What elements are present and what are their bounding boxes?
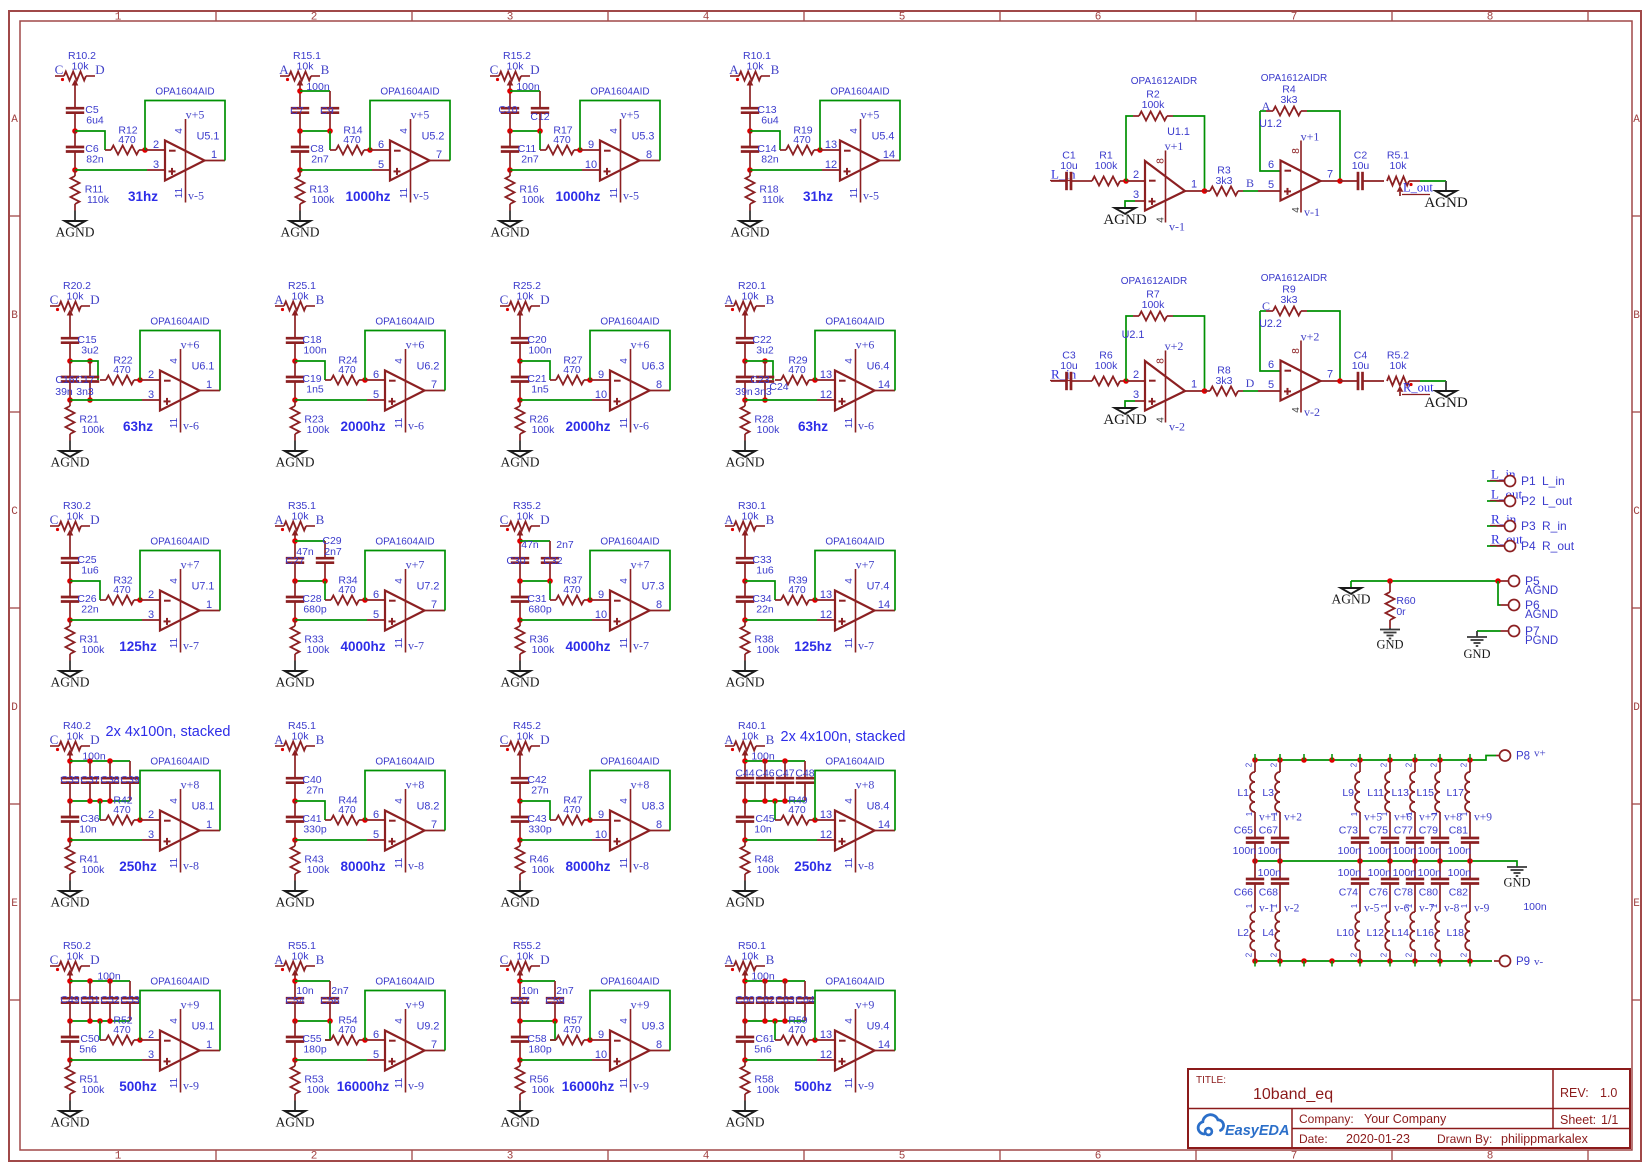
svg-text:A: A [1633,114,1640,126]
svg-text:100k: 100k [82,1084,106,1096]
svg-text:3: 3 [148,829,154,841]
frequency label 125hz [119,639,157,654]
frequency label 63hz [123,419,153,434]
svg-text:22n: 22n [756,604,774,616]
svg-text:C: C [55,62,64,77]
svg-text:v-1: v-1 [1169,220,1185,234]
svg-text:B: B [316,512,325,527]
capacitor C29 (branch) [316,558,334,563]
svg-text:v+9: v+9 [856,998,875,1012]
svg-text:L_in: L_in [1542,474,1565,488]
inductor L4 [1262,903,1280,961]
net label v-5 [1364,903,1380,915]
capacitor C61 5n6 [736,1021,775,1056]
ground AGND [1103,208,1146,228]
svg-text:9: 9 [588,139,594,151]
wire to non-inverting input [745,1059,835,1061]
net label v-7 [1419,903,1435,915]
ground AGND [276,1111,315,1130]
label [521,985,539,997]
op-amp U1.1 [1133,126,1197,234]
svg-text:10k: 10k [517,951,535,963]
junction node inverting input [137,1037,143,1043]
connector pin P8 v+ [1496,748,1546,763]
resistor R13 100k [296,170,336,206]
svg-text:U5.3: U5.3 [632,131,655,143]
svg-text:1: 1 [211,149,217,161]
svg-text:v+5: v+5 [621,108,640,122]
wire to ground [299,204,301,221]
svg-text:8: 8 [656,1039,662,1051]
svg-text:R_out: R_out [1403,381,1434,395]
wire node to R [295,361,325,380]
net label R_out [1487,532,1523,547]
svg-text:100k: 100k [307,864,331,876]
svg-text:2: 2 [1405,952,1414,957]
svg-text:v+8: v+8 [856,778,875,792]
potentiometer R25.1 10k [274,280,324,316]
wire to inverting input [140,379,160,381]
svg-text:v-8: v-8 [858,859,874,873]
svg-text:1000hz: 1000hz [345,189,390,204]
svg-text:OPA1604AID: OPA1604AID [825,537,884,548]
wire to ground [509,204,511,221]
frequency label 250hz [119,859,157,874]
svg-text:v+5: v+5 [861,108,880,122]
svg-text:C78: C78 [1394,887,1413,899]
wire output [875,830,896,832]
svg-text:C23: C23 [750,374,769,386]
junction node inverting input [137,817,143,823]
svg-text:AGND: AGND [51,1115,90,1130]
ground AGND [281,221,320,240]
wire to non-inverting input [1125,401,1145,408]
wire junction node [292,978,298,984]
capacitor C60 100n [735,994,754,1006]
svg-text:OPA1604AID: OPA1604AID [155,87,214,98]
resistor R38 100k [741,620,781,656]
svg-text:4: 4 [619,798,630,804]
wire v- rail [1252,958,1492,966]
resistor R27 470 [550,355,590,385]
svg-text:5: 5 [1268,379,1274,391]
svg-text:C48: C48 [795,768,814,780]
wire to ground [749,204,751,221]
capacitor C1 10u [1060,150,1078,191]
capacitor C50 5n6 [61,1021,100,1056]
svg-text:U6.1: U6.1 [192,361,215,373]
wire to non-inverting input [520,839,610,841]
wire feedback [140,771,220,831]
svg-text:3u2: 3u2 [81,345,99,357]
svg-text:2: 2 [1460,952,1469,957]
svg-text:v-9: v-9 [858,1079,874,1093]
wire [517,1003,558,1024]
svg-text:GND: GND [1503,876,1530,890]
wire cap stubs [90,981,130,998]
svg-text:680p: 680p [303,604,327,616]
svg-text:10k: 10k [517,731,535,743]
wire pot wiper [69,314,71,338]
potentiometer R55.2 10k [500,940,550,976]
svg-text:250hz: 250hz [794,859,832,874]
svg-text:250hz: 250hz [119,859,157,874]
capacitor C64 100n [795,994,814,1006]
wire feedback [815,771,895,831]
svg-text:1: 1 [1350,903,1359,908]
wire to inverting input [590,1039,610,1041]
capacitor C17 (parallel) [81,361,99,403]
wire to non-inverting input [75,169,165,171]
svg-text:5: 5 [1268,179,1274,191]
wire to branch cap [300,91,330,108]
svg-text:11: 11 [399,187,410,198]
svg-text:100k: 100k [532,644,556,656]
potentiometer R25.2 10k [500,280,550,316]
svg-text:10k: 10k [297,61,315,73]
wire pot wiper [519,314,521,338]
svg-text:9: 9 [598,369,604,381]
wire pot wiper [519,754,521,778]
op-amp U9.1 OPA1604AID [148,977,214,1093]
svg-text:100n: 100n [303,345,327,357]
svg-text:v+7: v+7 [631,558,650,572]
svg-text:v+7: v+7 [181,558,200,572]
svg-text:7: 7 [431,1039,437,1051]
wire tap to R [99,1021,101,1040]
capacitor C34 22n [736,581,774,616]
svg-text:v-9: v-9 [633,1079,649,1093]
chip label OPA1612AIDR [1131,76,1198,87]
resistor R24 470 [325,355,365,385]
resistor R48 100k [741,840,781,876]
svg-text:A: A [729,62,739,77]
wire to ground [69,434,71,451]
wire to branch cap [295,981,330,998]
junction node inverting input [812,1037,818,1043]
svg-text:GND: GND [1463,647,1490,661]
svg-text:6: 6 [1268,359,1274,371]
wire node to R [295,801,325,820]
svg-text:OPA1612AIDR: OPA1612AIDR [1131,76,1198,87]
svg-text:2n7: 2n7 [556,539,574,551]
svg-text:14: 14 [878,379,890,391]
svg-text:11: 11 [174,187,185,198]
op-amp U5.4 OPA1604AID [825,87,895,203]
svg-text:P1: P1 [1521,474,1536,488]
label 100n [97,971,121,983]
svg-text:100k: 100k [532,864,556,876]
svg-text:9: 9 [598,589,604,601]
wire output [650,610,671,612]
svg-text:D: D [95,62,104,77]
label [320,995,339,1007]
capacitor C9 (branch) [321,108,339,113]
svg-text:2n7: 2n7 [521,154,539,166]
svg-text:100n: 100n [528,345,552,357]
svg-text:6: 6 [373,369,379,381]
capacitor C37 100n [80,774,99,786]
svg-text:10u: 10u [1352,360,1370,372]
capacitor C15 3u2 [61,334,99,357]
capacitor C65 100n [1233,825,1265,862]
label [510,995,529,1007]
svg-text:100k: 100k [532,424,556,436]
label [530,111,549,123]
wire [517,343,523,364]
op-amp U7.3 OPA1604AID [595,537,665,653]
junction node inverting input [587,1037,593,1043]
wire tap to R [99,801,101,820]
svg-text:125hz: 125hz [119,639,157,654]
svg-text:B: B [321,62,330,77]
wire to non-inverting input [70,1059,160,1061]
svg-text:AGND: AGND [51,675,90,690]
svg-text:470: 470 [113,364,131,376]
capacitor C63 100n [775,994,794,1006]
capacitor C56 (branch) [321,998,339,1003]
svg-text:v-9: v-9 [1474,903,1490,915]
svg-text:470: 470 [788,584,806,596]
title text [1196,1075,1618,1146]
svg-text:6: 6 [1268,159,1274,171]
svg-text:OPA1604AID: OPA1604AID [150,977,209,988]
svg-text:100k: 100k [757,424,781,436]
svg-text:v-8: v-8 [408,859,424,873]
svg-text:OPA1604AID: OPA1604AID [150,317,209,328]
potentiometer R50.1 10k [724,940,774,976]
svg-text:100k: 100k [82,424,106,436]
svg-text:OPA1604AID: OPA1604AID [600,537,659,548]
svg-text:AGND: AGND [51,895,90,910]
svg-text:13: 13 [820,369,832,381]
capacitor C77 100n [1393,825,1425,862]
svg-text:v+1: v+1 [1165,139,1184,153]
svg-text:D: D [11,702,18,714]
wire to inverting input [140,1039,160,1041]
svg-text:B: B [11,310,18,322]
capacitor C81 100n [1448,825,1480,862]
svg-text:14: 14 [883,149,895,161]
ground AGND [491,221,530,240]
wire cap stubs [765,981,805,998]
svg-text:3: 3 [507,1151,514,1163]
chip label OPA1612AIDR [1121,276,1188,287]
chip label OPA1612AIDR [1261,273,1328,284]
wire [67,602,73,623]
svg-text:10k: 10k [67,731,85,743]
wire to non-inverting input [70,619,160,621]
svg-text:500hz: 500hz [119,1079,157,1094]
svg-text:11: 11 [619,417,630,428]
svg-text:v-9: v-9 [183,1079,199,1093]
ground AGND [51,451,90,470]
svg-text:11: 11 [844,1077,855,1088]
svg-text:C: C [1633,506,1640,518]
svg-text:L9: L9 [1342,787,1354,799]
wire to non-inverting input [295,619,385,621]
wire output 2 [1321,178,1359,184]
svg-text:5: 5 [373,609,379,621]
wire pot wiper [74,84,76,108]
svg-text:10n: 10n [754,824,772,836]
potentiometer R55.1 10k [274,940,324,976]
capacitor C35 100n [60,774,79,786]
capacitor C8 2n7 [291,131,329,166]
op-amp U6.3 OPA1604AID [595,317,665,433]
svg-text:v-5: v-5 [188,189,204,203]
svg-text:13: 13 [825,139,837,151]
resistor R41 100k [66,840,106,876]
svg-text:11: 11 [394,417,405,428]
ground AGND [501,671,540,690]
svg-text:1: 1 [115,1151,122,1163]
wire to branch cap [520,541,550,558]
capacitor C7 (main) [291,108,309,113]
svg-text:22n: 22n [81,604,99,616]
svg-text:2n7: 2n7 [311,154,329,166]
wire [517,602,523,623]
svg-text:C: C [500,512,509,527]
wire branch to R [325,1021,330,1040]
wire to ground [519,1094,521,1111]
svg-text:v-6: v-6 [183,419,199,433]
svg-text:12: 12 [820,609,832,621]
resistor R26 100k [516,400,556,436]
wire to ground [744,874,746,891]
ground AGND [51,891,90,910]
svg-text:11: 11 [394,857,405,868]
label [516,81,540,93]
capacitor C44 100n [735,768,754,783]
resistor R29 470 [775,355,815,385]
op-amp U9.4 OPA1604AID [820,977,890,1093]
resistor R46 100k [516,840,556,876]
svg-text:v+5: v+5 [186,108,205,122]
wire to ground [294,434,296,451]
wire node to R [75,131,105,150]
svg-text:2: 2 [148,809,154,821]
ground AGND [726,1111,765,1130]
label 100n stray [1523,901,1547,913]
wire node to R [750,131,780,150]
svg-text:100k: 100k [757,644,781,656]
resistor R60 0r [1386,581,1416,628]
capacitor C73 100n [1338,825,1370,862]
wire output [425,390,446,392]
svg-text:B: B [766,732,775,747]
wire output [1185,188,1207,194]
resistor R54 470 [325,1015,365,1045]
resistor R2 100k feedback [1126,89,1205,192]
wire output [875,610,896,612]
svg-text:v-5: v-5 [863,189,879,203]
wire to branch cap [520,981,555,998]
svg-text:470: 470 [563,804,581,816]
capacitor C36 10n [61,801,100,836]
svg-text:5: 5 [899,12,906,24]
frequency label 63hz [798,419,828,434]
svg-text:16000hz: 16000hz [562,1079,615,1094]
svg-text:U5.1: U5.1 [197,131,220,143]
svg-text:C: C [500,952,509,967]
svg-text:C68: C68 [1259,887,1278,899]
capacitor C75 100n [1368,825,1400,862]
wire branch to R [329,131,331,150]
svg-text:11: 11 [619,637,630,648]
svg-text:P2: P2 [1521,494,1536,508]
wire node to R [745,581,775,600]
svg-text:10k: 10k [292,511,310,523]
svg-text:100n: 100n [97,971,121,983]
svg-text:6: 6 [378,139,384,151]
wire junction node [297,88,303,94]
title block frame [1188,1069,1630,1148]
capacitor C54 (main) [286,998,304,1003]
svg-text:1n5: 1n5 [531,384,549,396]
wire output [875,390,896,392]
svg-text:L_out: L_out [1403,181,1433,195]
svg-text:14: 14 [878,819,890,831]
svg-text:B: B [1633,310,1640,322]
svg-text:v+6: v+6 [181,338,200,352]
resistor R28 100k [741,400,781,436]
svg-text:8000hz: 8000hz [340,859,385,874]
wire to ground [294,654,296,671]
ground GND P7 [1463,637,1490,661]
svg-text:OPA1612AIDR: OPA1612AIDR [1261,273,1328,284]
label [331,985,349,997]
svg-text:v-1: v-1 [1304,205,1320,219]
resistor R37 470 [550,575,590,605]
svg-text:U6.2: U6.2 [417,361,440,373]
wire P7 [1477,631,1501,637]
inductor L15 [1416,760,1440,838]
wire to ground [74,204,76,221]
svg-text:4: 4 [849,128,860,134]
svg-text:8: 8 [1291,148,1302,154]
ground AGND [56,221,95,240]
capacitor C23 (parallel) [736,361,754,400]
svg-text:100n: 100n [1258,867,1282,879]
label [290,105,304,117]
wire pot wiper [744,314,746,338]
svg-text:10u: 10u [1352,160,1370,172]
ground GND under R60 [1376,628,1403,652]
svg-text:D: D [90,292,99,307]
inductor L11 [1367,760,1390,838]
svg-text:3: 3 [1133,389,1139,401]
svg-text:470: 470 [338,804,356,816]
svg-text:v+6: v+6 [631,338,650,352]
svg-text:11: 11 [619,1077,630,1088]
svg-text:OPA1604AID: OPA1604AID [825,977,884,988]
svg-text:2: 2 [1245,762,1254,767]
svg-text:Your Company: Your Company [1364,1112,1447,1126]
wire pot wiper [509,84,511,108]
wire [292,822,298,843]
svg-text:AGND: AGND [276,1115,315,1130]
svg-text:10: 10 [595,829,607,841]
svg-text:A: A [274,952,284,967]
resistor R7 100k feedback [1126,289,1205,392]
svg-text:L12: L12 [1366,927,1384,939]
svg-text:3: 3 [153,159,159,171]
capacitor C59 (branch) [546,998,564,1003]
wire cap stubs [90,761,130,778]
svg-text:16000hz: 16000hz [337,1079,390,1094]
svg-text:10k: 10k [742,511,760,523]
